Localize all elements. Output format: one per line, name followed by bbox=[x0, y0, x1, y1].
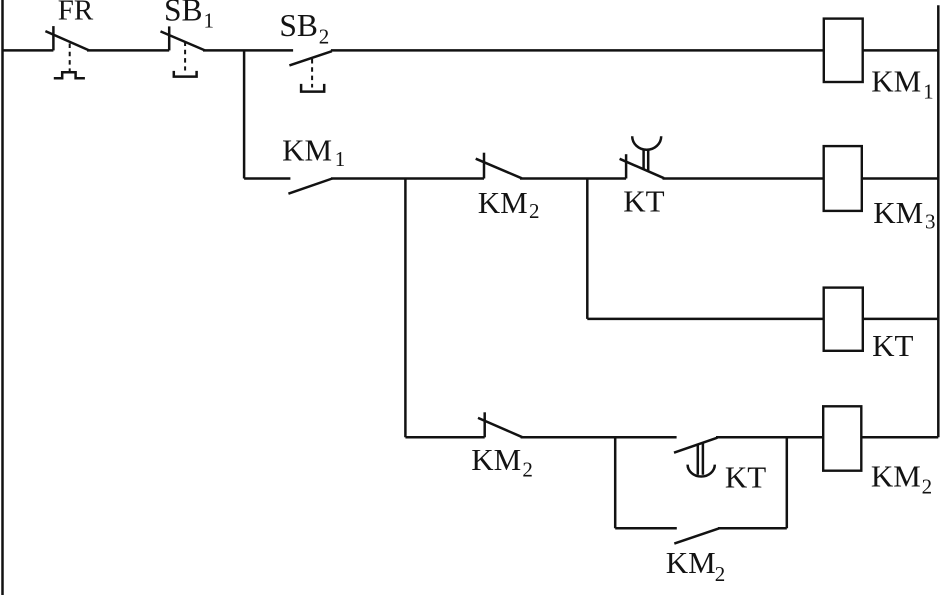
svg-text:KT: KT bbox=[872, 328, 913, 363]
svg-text:1: 1 bbox=[923, 80, 934, 104]
svg-text:2: 2 bbox=[922, 475, 933, 499]
svg-text:2: 2 bbox=[529, 199, 540, 223]
svg-text:2: 2 bbox=[715, 562, 726, 586]
svg-text:FR: FR bbox=[58, 0, 94, 27]
svg-text:SB: SB bbox=[164, 0, 203, 27]
svg-text:KM: KM bbox=[282, 133, 332, 168]
svg-text:2: 2 bbox=[522, 458, 533, 482]
svg-text:SB: SB bbox=[279, 8, 318, 43]
svg-text:2: 2 bbox=[319, 25, 330, 49]
svg-text:KM: KM bbox=[478, 185, 528, 220]
svg-text:KM: KM bbox=[471, 442, 521, 477]
svg-text:KM: KM bbox=[666, 545, 716, 580]
svg-text:1: 1 bbox=[204, 9, 215, 33]
svg-text:KM: KM bbox=[873, 195, 923, 230]
svg-text:3: 3 bbox=[925, 210, 936, 234]
svg-text:KM: KM bbox=[871, 459, 921, 494]
svg-text:KT: KT bbox=[623, 183, 664, 218]
svg-text:KM: KM bbox=[871, 63, 921, 98]
svg-text:1: 1 bbox=[335, 147, 346, 171]
svg-text:KT: KT bbox=[725, 459, 766, 494]
